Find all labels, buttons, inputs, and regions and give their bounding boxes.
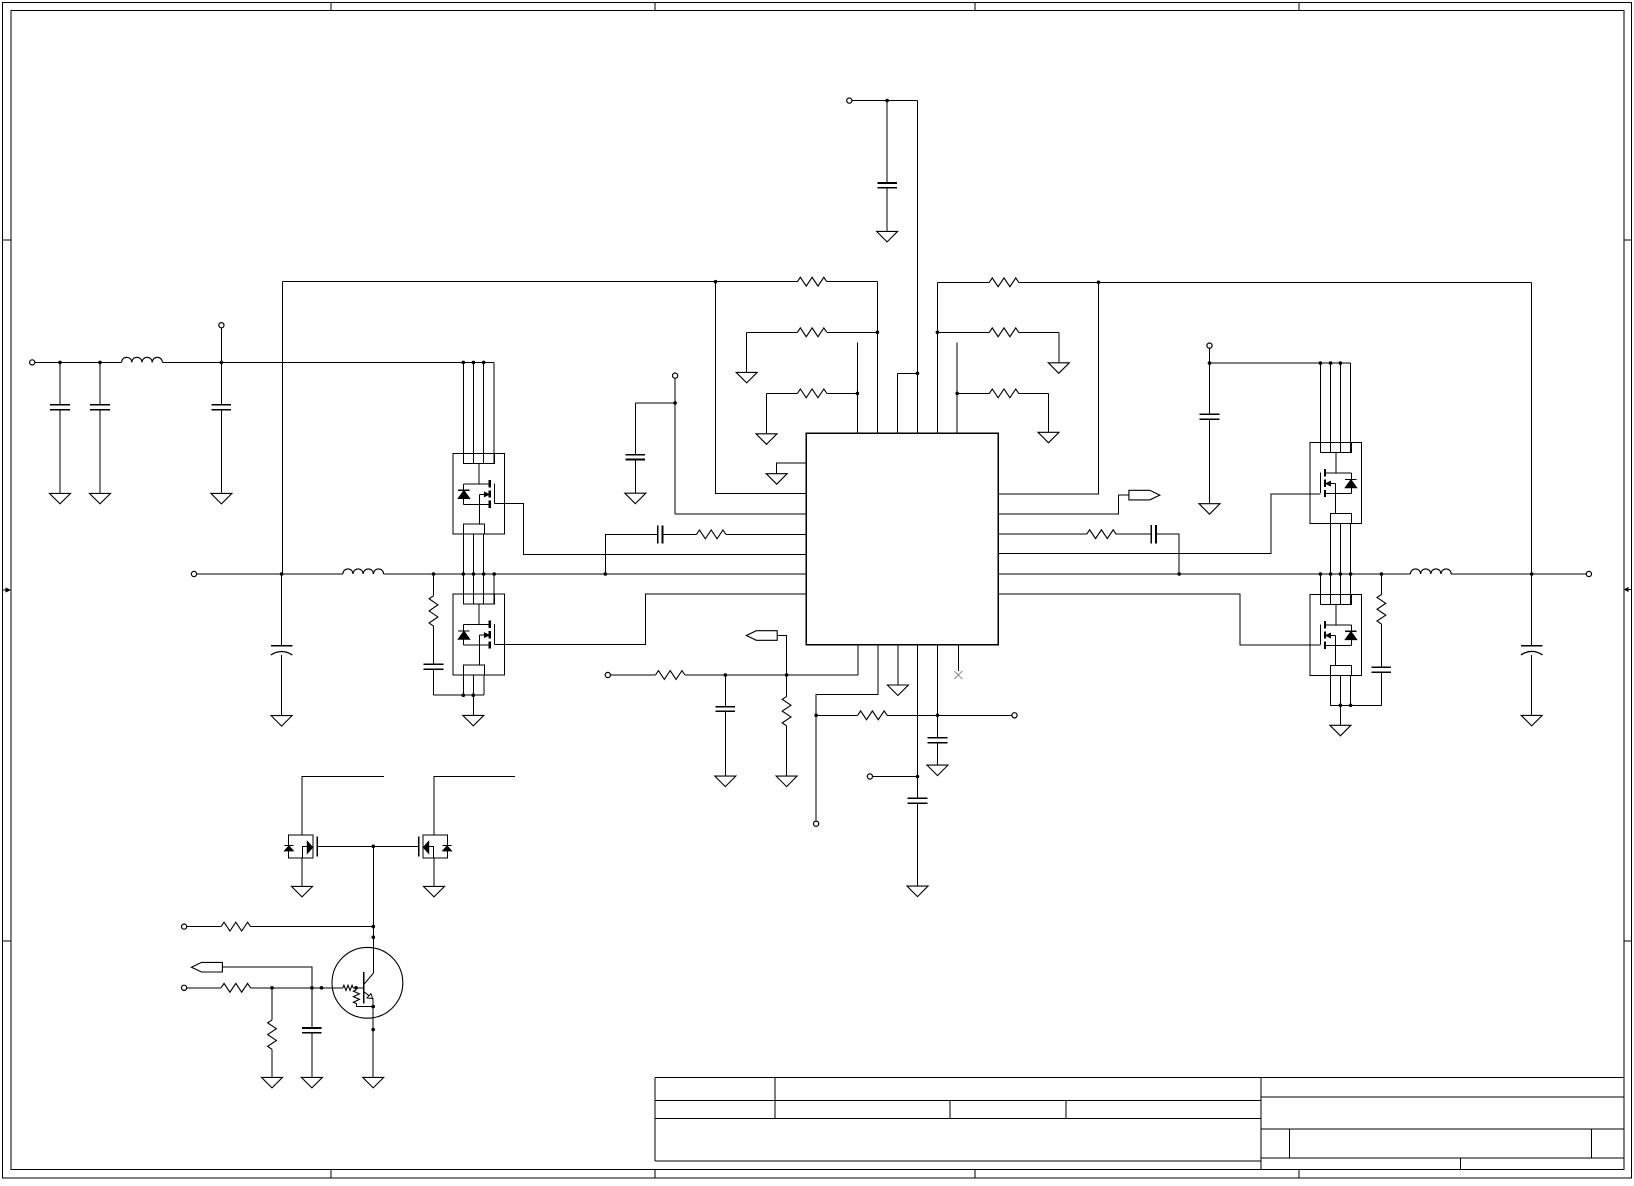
resistor R-in	[656, 671, 685, 680]
wire	[1380, 574, 1382, 595]
wire PVCC-R bus	[1210, 362, 1351, 364]
wire stub GVDD2	[434, 776, 515, 835]
wire IC pin top-2	[876, 282, 878, 434]
capacitor C-byp	[908, 797, 928, 799]
wire Q1 drain pin1	[462, 362, 464, 463]
terminal CTRL	[182, 985, 187, 990]
wire	[35, 361, 122, 363]
wire	[777, 636, 786, 676]
wire	[462, 534, 464, 604]
wire IC pin B1	[857, 645, 859, 675]
wire	[1019, 281, 1532, 283]
capacitor C-mode	[928, 737, 948, 739]
wire OUT-L bus to IC pin L6	[384, 573, 807, 575]
ground	[363, 1077, 384, 1088]
wire	[271, 1049, 273, 1077]
inductor L2 out-left	[343, 569, 384, 574]
wire	[1048, 393, 1050, 432]
wire	[301, 858, 303, 886]
wire	[1531, 574, 1533, 646]
capacitor C-top	[877, 182, 897, 184]
resistor R2L	[797, 328, 826, 337]
wire	[724, 675, 726, 707]
capacitor C-in	[716, 706, 736, 708]
resistor R-row1-left network	[283, 281, 798, 283]
resistor R-fb-R	[1087, 530, 1116, 539]
wire	[472, 675, 474, 695]
wire PGND-L bus	[434, 694, 484, 696]
terminal OUT-L	[191, 571, 196, 576]
wire	[251, 926, 374, 928]
node	[936, 714, 940, 718]
node	[280, 572, 284, 576]
capacitor C2	[90, 404, 110, 406]
transistor Q2 low-side left	[453, 594, 505, 675]
terminal BYP	[867, 774, 872, 779]
node	[220, 361, 224, 365]
wire	[1350, 675, 1352, 705]
capacitor C-fb-L	[657, 525, 659, 543]
ground	[736, 372, 757, 383]
resistor R-snub-R	[1377, 595, 1386, 625]
terminal GVDD-L	[673, 373, 678, 378]
wire	[605, 534, 657, 574]
node	[876, 331, 880, 335]
ground	[292, 886, 313, 897]
wire	[220, 328, 222, 363]
wire	[1339, 705, 1341, 725]
resistor R-be internal	[353, 990, 359, 1004]
node	[1380, 572, 1384, 576]
ground	[877, 231, 898, 242]
resistor R-fb-L	[697, 530, 726, 539]
node	[1208, 361, 1212, 365]
wire	[1350, 523, 1352, 604]
wire	[746, 332, 748, 372]
wire Q1 gate pin4	[493, 362, 495, 463]
wire	[674, 378, 676, 514]
wire Q1 drain pin3	[483, 362, 485, 463]
wire Q3 pin	[1350, 363, 1352, 452]
wire	[827, 331, 878, 333]
transistor Q3 high-side right	[1310, 443, 1362, 524]
net flag FAULT-b	[192, 962, 223, 972]
resistor R3R	[989, 389, 1018, 398]
wire	[852, 100, 917, 102]
node	[432, 572, 436, 576]
wire	[483, 675, 485, 695]
capacitor C-snub-L	[424, 663, 444, 665]
wire	[222, 967, 312, 988]
wire IC pin R1 up	[998, 282, 1098, 494]
wire	[1380, 624, 1382, 667]
wire IC pin B6 n/c	[957, 645, 959, 671]
wire Q1 drain pin2	[473, 362, 475, 463]
resistor R-base internal	[343, 985, 353, 990]
wire emitter diag	[364, 992, 371, 997]
wire	[887, 714, 1012, 716]
wire	[1339, 675, 1341, 705]
wire IC pin L3	[675, 513, 806, 515]
wire	[271, 988, 273, 1020]
resistor R3L	[797, 389, 826, 398]
wire base bar	[363, 972, 365, 1003]
wire	[197, 573, 343, 575]
wire	[1380, 672, 1382, 705]
wire	[353, 987, 364, 989]
ground	[463, 715, 484, 726]
wire IC pin R3	[998, 533, 1086, 535]
resistor R1L	[797, 277, 826, 286]
no-connect X mark	[954, 671, 962, 679]
node	[98, 361, 102, 365]
wire	[372, 846, 374, 973]
border centre arrow left	[3, 589, 7, 591]
wire	[827, 281, 878, 283]
capacitor C1	[50, 404, 70, 406]
wire	[433, 574, 435, 596]
ground	[211, 493, 232, 504]
net flag MUTE	[746, 631, 777, 641]
ground	[50, 493, 71, 504]
wire	[766, 393, 768, 433]
wire	[786, 726, 788, 776]
wire Q3 pin	[1339, 363, 1341, 452]
ground	[1521, 715, 1542, 726]
wire	[767, 392, 798, 394]
wire gate link	[317, 845, 419, 847]
wire	[685, 674, 858, 676]
wire BSTR vertical	[1531, 282, 1533, 574]
ground	[1038, 432, 1059, 443]
capacitor C-snub-R	[1372, 666, 1392, 668]
ground	[715, 776, 736, 787]
wire	[311, 988, 313, 1028]
wire	[634, 460, 636, 494]
wire emitter	[372, 998, 374, 1077]
border centre arrow right	[1628, 589, 1632, 591]
ground	[301, 1077, 322, 1088]
transistor Q5 small left	[285, 835, 318, 858]
wire VCC to IC pin top-4	[916, 101, 918, 434]
wire Q4 gate pin	[1319, 574, 1321, 604]
wire	[610, 674, 655, 676]
terminal MODE	[1012, 713, 1017, 718]
node	[1530, 572, 1534, 576]
wire	[220, 362, 222, 404]
ground	[907, 886, 928, 897]
wire	[1451, 573, 1586, 575]
capacitor C-out-L electrolytic	[271, 645, 293, 647]
transistor Q4 low-side right	[1310, 594, 1362, 675]
wire	[311, 1033, 313, 1078]
wire	[281, 574, 283, 646]
node	[372, 845, 376, 849]
wire	[1156, 534, 1179, 574]
wire	[220, 411, 222, 494]
wire	[816, 714, 858, 716]
wire	[1019, 392, 1049, 394]
resistor R-snub-L	[429, 596, 438, 626]
wire IC pin B4	[917, 645, 919, 799]
wire IC pin top-6	[956, 343, 958, 434]
wire	[99, 411, 101, 494]
wire Q3 pin	[1330, 363, 1332, 452]
wire to IC pin L4	[726, 533, 806, 535]
wire	[957, 392, 989, 394]
wire	[1330, 523, 1332, 604]
capacitor C4	[1200, 413, 1220, 415]
wire	[663, 533, 697, 535]
ground	[887, 685, 908, 696]
wire	[1330, 675, 1332, 705]
wire	[483, 534, 485, 604]
wire IC pin L2 up	[716, 282, 807, 494]
capacitor C-gvdd-L	[626, 454, 646, 456]
node	[673, 401, 677, 405]
wire	[1209, 348, 1211, 414]
wire	[786, 675, 788, 696]
terminal OUT-R	[1586, 571, 1591, 576]
net flag FAULT	[1129, 490, 1160, 500]
wire IC pin B5	[937, 645, 939, 738]
wire IC pin B3	[897, 645, 899, 685]
resistor R2R	[989, 328, 1018, 337]
wire IC pin B2	[816, 645, 878, 821]
wire	[187, 926, 221, 928]
resistor R-row1-right network	[936, 282, 938, 433]
resistor R-pull	[268, 1020, 277, 1049]
ground	[625, 493, 646, 504]
op-amp U1 class-D controller IC	[806, 433, 998, 645]
ground	[1048, 363, 1069, 374]
wire	[59, 362, 61, 404]
wire IC pin L1	[777, 463, 807, 474]
terminal J-PVCC-R	[1207, 343, 1212, 348]
wire	[873, 776, 918, 778]
wire	[281, 655, 283, 716]
wire	[356, 1004, 373, 1007]
wire	[937, 743, 939, 765]
wire	[251, 987, 343, 989]
node	[714, 280, 718, 284]
wire PGND-R bus	[1331, 704, 1382, 706]
node	[814, 714, 818, 718]
wire IC pin R4 to Q3 gate	[998, 494, 1320, 554]
wire	[473, 534, 475, 604]
wire	[1209, 419, 1211, 504]
wire	[433, 669, 435, 695]
resistor R-ctrl	[221, 983, 250, 992]
node	[936, 331, 940, 335]
wire	[886, 188, 888, 232]
wire Q3 pin	[1319, 363, 1321, 452]
node	[785, 673, 789, 677]
wire Q1 gate to IC pin L5	[494, 503, 806, 554]
wire IC pin R6 to Q4 gate	[998, 594, 1320, 645]
node	[724, 673, 728, 677]
capacitor C-ctrl	[302, 1027, 322, 1029]
wire	[827, 392, 858, 394]
node	[916, 775, 920, 779]
capacitor C3	[212, 404, 232, 406]
wire	[59, 411, 61, 494]
wire	[462, 675, 464, 695]
wire	[187, 987, 221, 989]
terminal IN	[605, 672, 610, 677]
node	[1097, 281, 1101, 285]
wire	[937, 281, 989, 283]
resistor R-mode	[858, 711, 887, 720]
terminal J-PVCC-L	[30, 360, 35, 365]
inductor L3 out-right	[1410, 569, 1451, 574]
ground	[927, 765, 948, 776]
wire OUT-R bus IC pin R5	[998, 573, 1410, 575]
wire	[1019, 331, 1059, 333]
transistor Q6 small right	[419, 835, 452, 858]
transistor Q7 digital BJT	[332, 947, 403, 1018]
wire	[472, 695, 474, 715]
wire IC pin top-1	[856, 343, 858, 434]
wire	[937, 331, 989, 333]
wire PVCC-L bus	[162, 361, 494, 363]
wire	[1339, 523, 1341, 604]
ground	[766, 474, 787, 485]
wire IC pin top-3	[897, 373, 899, 433]
ground	[424, 886, 445, 897]
ground	[1330, 725, 1351, 736]
terminal PVCC-L probe	[219, 323, 224, 328]
wire	[1116, 533, 1151, 535]
resistor R1R	[989, 278, 1018, 287]
wire	[917, 803, 919, 886]
node VCC-top junction	[885, 99, 889, 103]
node AVCC junction	[916, 372, 920, 376]
wire BSTL vertical	[282, 282, 284, 574]
wire Q2 gate to IC pin L7	[494, 594, 806, 645]
wire	[886, 101, 888, 183]
inductor L1 ferrite	[122, 357, 163, 362]
wire IC pin R2	[998, 495, 1129, 514]
node	[58, 361, 62, 365]
wire	[433, 626, 435, 664]
terminal VREF	[814, 821, 819, 826]
ground	[756, 434, 777, 445]
title block	[655, 1077, 1261, 1079]
transistor Q1 high-side left	[453, 453, 505, 534]
terminal SD	[182, 924, 187, 929]
wire collector diag	[364, 974, 374, 985]
wire	[724, 711, 726, 776]
ground	[90, 493, 111, 504]
node	[955, 392, 959, 396]
node	[604, 572, 608, 576]
capacitor C-fb-R	[1150, 525, 1152, 543]
node	[1177, 572, 1181, 576]
wire	[433, 858, 435, 886]
node	[856, 392, 860, 396]
wire stub GVDD1	[302, 776, 384, 835]
ground	[776, 776, 797, 787]
ground	[271, 716, 292, 727]
wire	[1531, 655, 1533, 716]
ground	[262, 1077, 283, 1088]
resistor R-pd	[782, 696, 791, 725]
ground	[1199, 504, 1220, 515]
wire	[635, 402, 675, 404]
wire	[898, 372, 918, 374]
wire	[1058, 332, 1060, 363]
wire Q2 gate pin4	[493, 574, 495, 604]
wire	[747, 331, 798, 333]
wire	[634, 403, 636, 455]
capacitor C-out-R electrolytic	[1521, 645, 1543, 647]
wire	[99, 362, 101, 404]
terminal J-VCC top	[847, 98, 852, 103]
resistor R-sd	[221, 922, 250, 931]
